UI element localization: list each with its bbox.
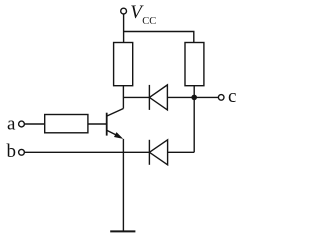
diode D1 (top, cathode left) [149, 85, 194, 110]
wire Vcc vertical down to R1 top [123, 14, 125, 42]
svg-text:CC: CC [142, 16, 156, 27]
resistor R1 (left collector resistor) [114, 43, 133, 86]
wire R1 bottom to collector [122, 86, 124, 109]
wire collector node to diode D1 cathode [123, 96, 149, 98]
wire a to resistor R3 [25, 123, 45, 125]
resistor R2 (right pull-up resistor) [185, 43, 204, 86]
wire Vcc rail to right [124, 32, 194, 43]
Vcc terminal [121, 8, 127, 14]
transistor Q1 base bar [106, 113, 108, 136]
svg-text:b: b [7, 141, 17, 162]
terminal c [218, 95, 224, 101]
transistor Q1 collector lead [107, 109, 124, 117]
resistor R3 (base resistor) [45, 115, 88, 133]
label Vcc [130, 2, 156, 27]
wire node down to diode D2 row [193, 97, 195, 152]
transistor Q1 emitter lead with arrow [107, 130, 124, 139]
svg-text:c: c [228, 86, 236, 107]
ground [110, 230, 135, 232]
terminal a [19, 121, 25, 127]
svg-text:a: a [7, 114, 16, 135]
wire R2 bottom to node [193, 86, 195, 98]
terminal b [19, 149, 25, 155]
diode D2 (bottom, cathode left) [149, 140, 194, 165]
wire node to output c [194, 96, 218, 98]
node junction dot [191, 95, 197, 101]
wire R3 to base [88, 123, 107, 125]
wire emitter down to ground [122, 139, 124, 232]
wire b to diode D2 (crosses emitter, no dot) [25, 151, 150, 153]
